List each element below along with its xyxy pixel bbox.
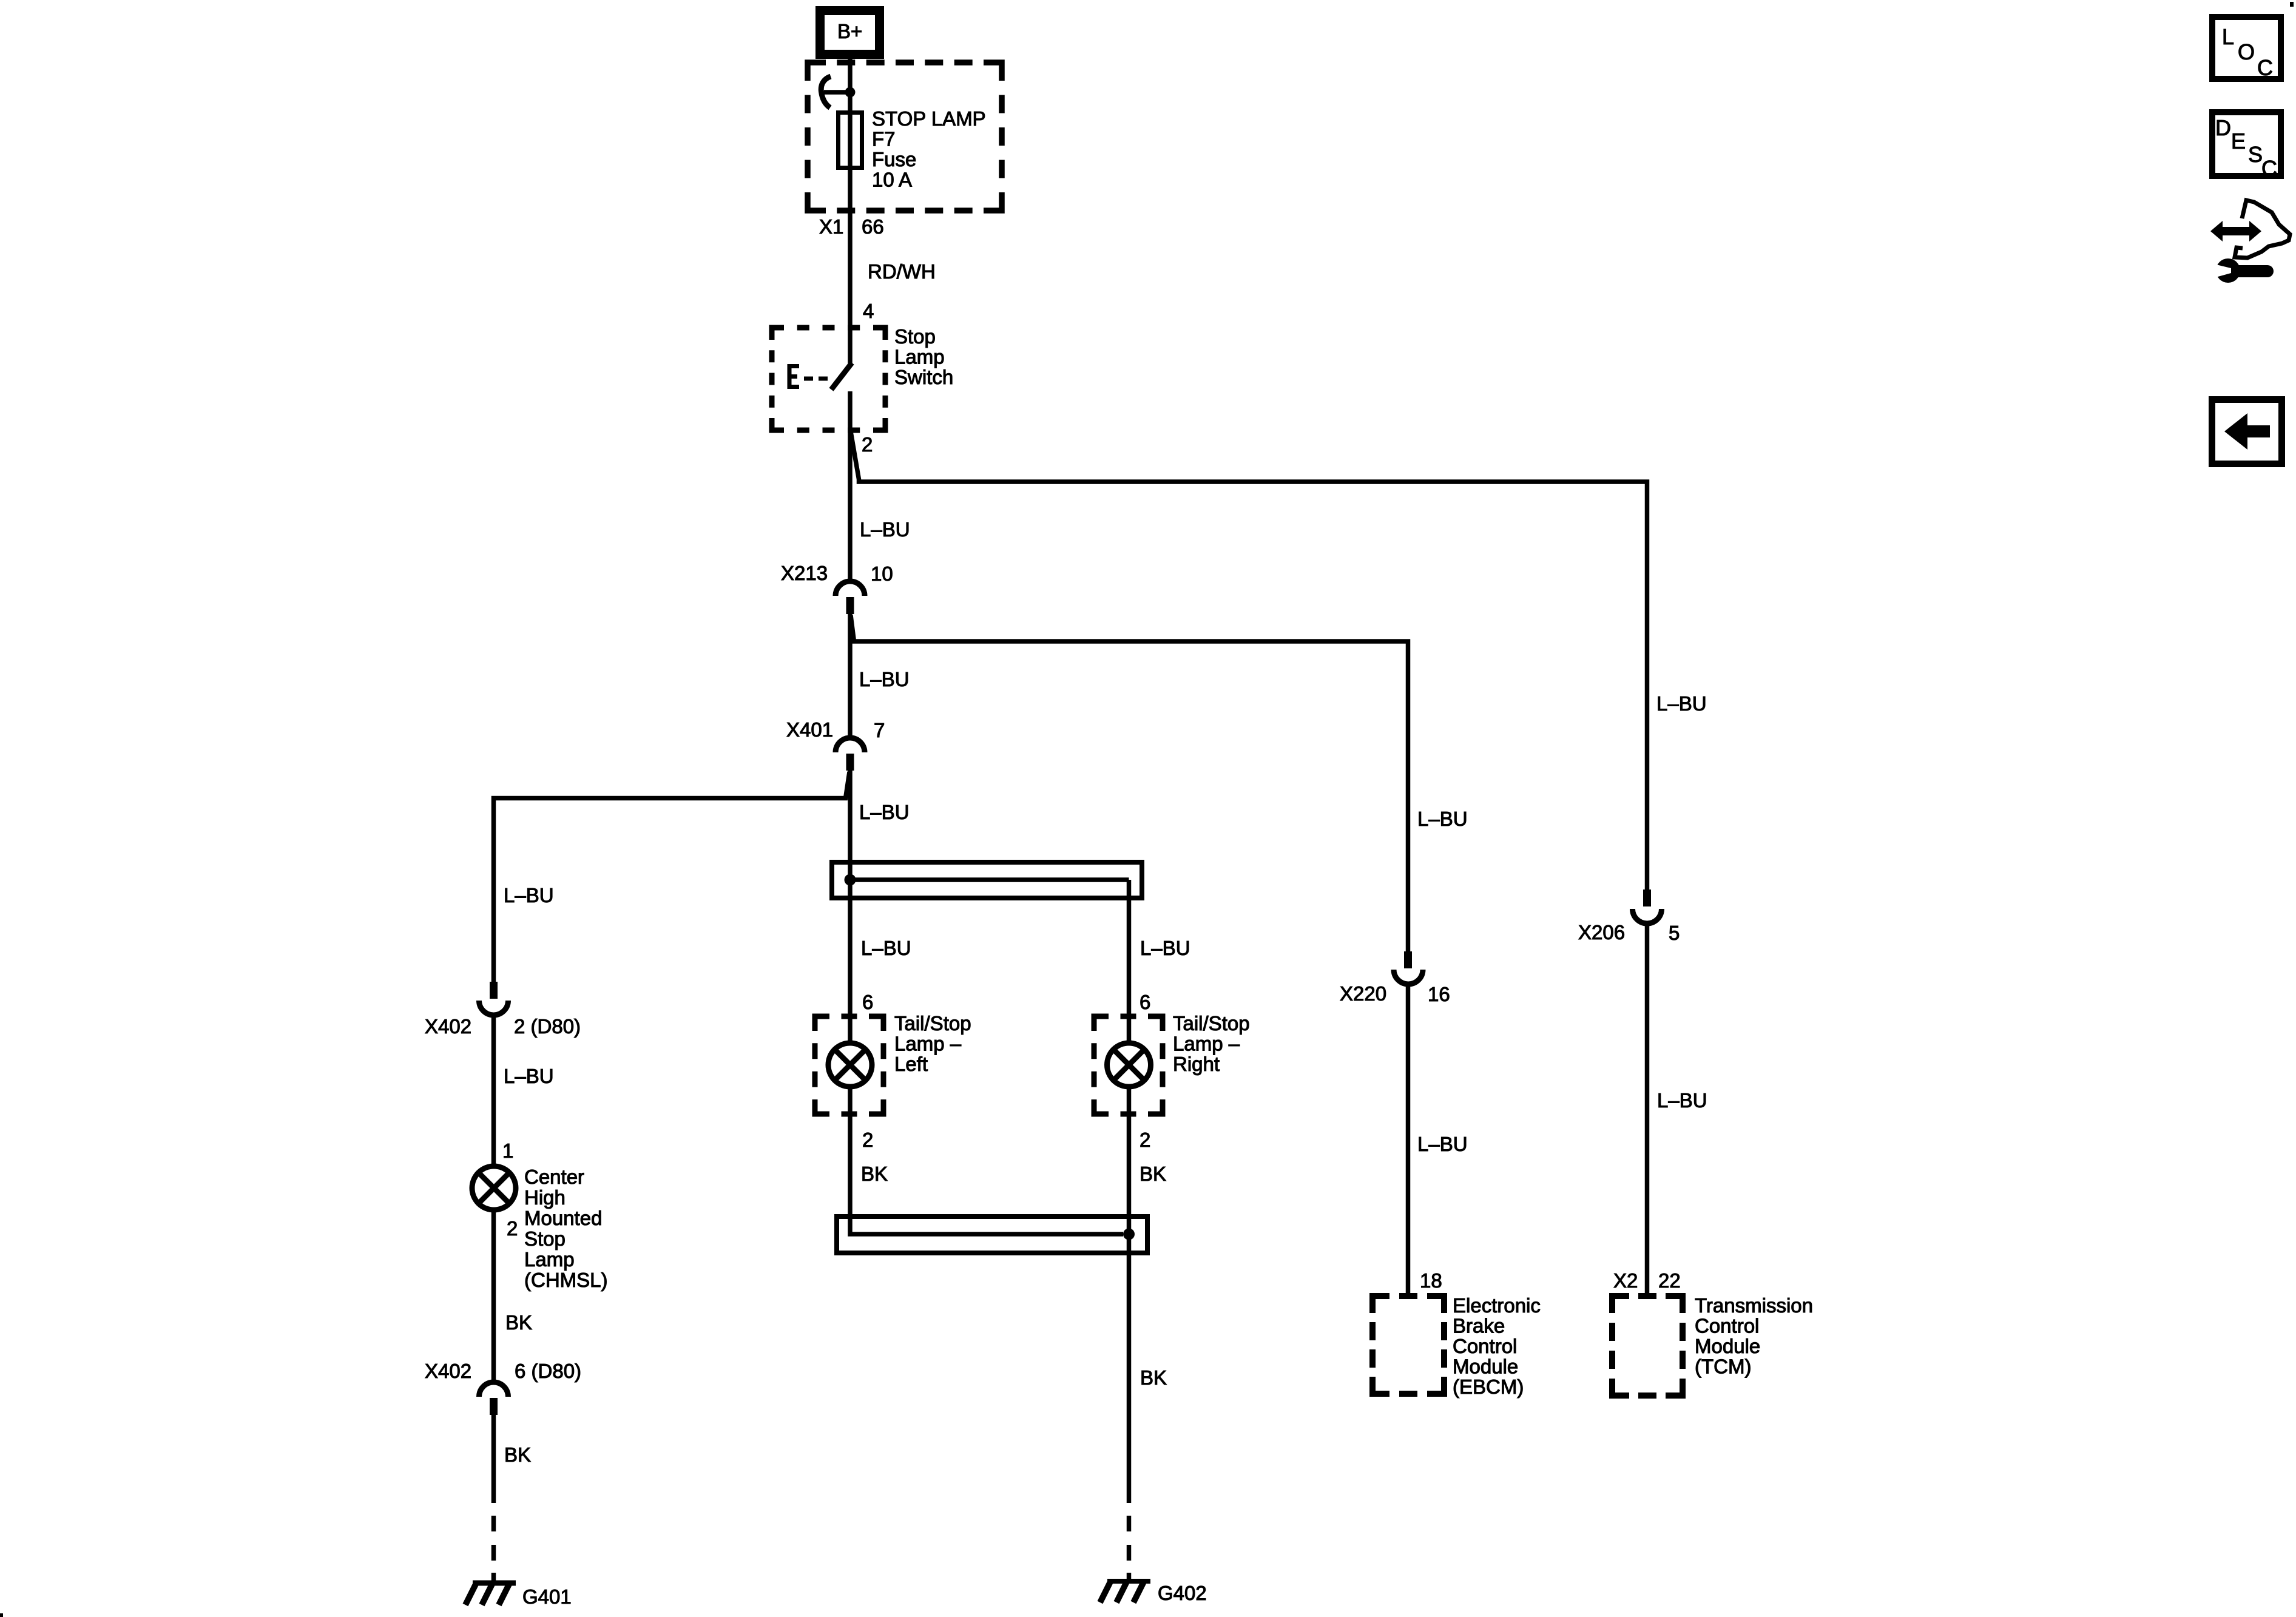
svg-text:Electronic: Electronic (1453, 1294, 1541, 1317)
svg-text:F7: F7 (872, 128, 896, 150)
inline connector X402 pin 6 (D80) (425, 1360, 581, 1415)
svg-text:L–BU: L–BU (861, 937, 911, 959)
svg-text:6: 6 (862, 991, 873, 1013)
svg-text:Mounted: Mounted (524, 1207, 602, 1229)
svg-text:2: 2 (1140, 1129, 1150, 1151)
svg-text:X206: X206 (1578, 921, 1625, 944)
label: STOP LAMP F7 Fuse 10 A (872, 107, 986, 191)
ground G402 (1100, 1581, 1207, 1604)
svg-text:B+: B+ (837, 20, 862, 42)
svg-text:L–BU: L–BU (859, 668, 910, 690)
wire label BK (504, 1443, 531, 1466)
svg-text:Transmission: Transmission (1695, 1294, 1813, 1317)
wire label RD/WH (868, 260, 936, 283)
power feed B+ box (820, 11, 880, 55)
pin 2 label (lamp left) (862, 1129, 873, 1151)
inline connector X402 pin 2 (D80) (425, 982, 581, 1038)
svg-text:C: C (2261, 156, 2277, 181)
wire: X213 to X401 (L-BU) (848, 614, 853, 738)
svg-text:Module: Module (1695, 1335, 1760, 1357)
svg-text:G402: G402 (1158, 1582, 1207, 1604)
svg-text:Lamp –: Lamp – (1173, 1033, 1240, 1055)
svg-text:L–BU: L–BU (1656, 692, 1707, 715)
back arrow icon box (2212, 400, 2282, 464)
tail/stop lamp left bulb (828, 1043, 872, 1087)
wire: X220 to EBCM (L-BU) (1406, 984, 1411, 1298)
svg-text:Lamp –: Lamp – (894, 1033, 962, 1055)
svg-text:5: 5 (1669, 922, 1680, 944)
svg-text:Module: Module (1453, 1355, 1518, 1378)
svg-text:L–BU: L–BU (504, 884, 554, 906)
svg-text:(EBCM): (EBCM) (1453, 1376, 1524, 1398)
inline connector X220 pin 16 (1340, 951, 1450, 1005)
wire label L-BU (859, 668, 910, 690)
svg-text:Control: Control (1695, 1315, 1759, 1337)
wire label L-BU (860, 518, 910, 541)
splice S1 junction dot (845, 874, 856, 886)
svg-text:Stop: Stop (524, 1227, 566, 1250)
svg-text:2 (D80): 2 (D80) (514, 1015, 581, 1038)
svg-text:Brake: Brake (1453, 1315, 1505, 1337)
svg-text:D: D (2215, 115, 2231, 140)
fuse F7 body (839, 113, 862, 168)
page mark bottom left (0, 1613, 3, 1617)
CHMSL bulb (472, 1166, 516, 1210)
splice S2 junction dot (1123, 1229, 1135, 1240)
svg-text:Lamp: Lamp (524, 1248, 575, 1271)
svg-text:STOP LAMP: STOP LAMP (872, 107, 986, 130)
dashed wire to G402 (1127, 1516, 1132, 1580)
svg-text:Stop: Stop (894, 325, 936, 348)
wire: B+ through fuse F7 to stop lamp switch pin 4 (848, 58, 853, 363)
svg-text:2: 2 (862, 433, 873, 456)
svg-text:X2: X2 (1613, 1269, 1638, 1292)
label: Electronic Brake Control Module (EBCM) (1453, 1294, 1541, 1398)
connector repair icon: terminal outline (2235, 200, 2290, 258)
svg-text:Center: Center (524, 1166, 584, 1188)
branch wire to X206 / TCM (851, 431, 1647, 890)
svg-text:Right: Right (1173, 1053, 1220, 1075)
svg-text:BK: BK (1140, 1366, 1167, 1389)
svg-text:BK: BK (505, 1311, 532, 1334)
svg-text:L–BU: L–BU (860, 518, 910, 541)
svg-text:16: 16 (1428, 983, 1450, 1005)
svg-text:High: High (524, 1186, 566, 1209)
svg-text:Fuse: Fuse (872, 148, 916, 170)
svg-text:X220: X220 (1340, 982, 1386, 1005)
splice S1 inner wire (850, 877, 1129, 882)
wire: lamp left to splice S2 (850, 1087, 1123, 1234)
pin 6 label (lamp left) (862, 991, 873, 1013)
svg-text:L–BU: L–BU (1417, 1133, 1468, 1155)
pin 2 label (lamp right) (1140, 1129, 1150, 1151)
svg-text:G401: G401 (522, 1585, 572, 1608)
branch wire to CHMSL (494, 772, 850, 982)
wire: X206 to TCM (L-BU) (1645, 923, 1650, 1298)
inline connector X206 pin 5 (1578, 890, 1680, 944)
svg-text:X401: X401 (786, 718, 833, 741)
svg-text:Control: Control (1453, 1335, 1517, 1357)
svg-text:7: 7 (874, 719, 885, 741)
label: Tail/Stop Lamp - Left (894, 1012, 971, 1075)
svg-text:X1: X1 (819, 215, 843, 238)
wire: switch pin 2 down to X213 (L-BU) (848, 391, 853, 581)
brake pedal actuator symbol E (789, 364, 828, 389)
branch wire to X220 / EBCM (851, 615, 1408, 951)
svg-text:L–BU: L–BU (1657, 1089, 1707, 1112)
svg-text:22: 22 (1658, 1269, 1681, 1292)
wire label L-BU (X220 branch upper) (1417, 808, 1468, 830)
wire: CHMSL to X402-6 (BK) (491, 1210, 496, 1382)
inline connector X401 pin 7 (786, 718, 885, 771)
svg-text:2: 2 (507, 1217, 518, 1240)
label: Center High Mounted Stop Lamp (CHMSL) (524, 1166, 608, 1291)
underhood fuse block dashed box (808, 62, 1002, 211)
connector label X2 pin 22 (1613, 1269, 1681, 1292)
wire label BK (right column) (1140, 1366, 1167, 1389)
fuse block clip (821, 76, 849, 108)
svg-text:66: 66 (862, 215, 884, 238)
svg-text:L–BU: L–BU (859, 801, 910, 823)
svg-text:L–BU: L–BU (1140, 937, 1190, 959)
dashed wire to G401 (491, 1516, 496, 1581)
LOC icon box (2212, 17, 2281, 80)
svg-text:C: C (2257, 55, 2273, 80)
svg-text:BK: BK (861, 1163, 888, 1185)
svg-text:X402: X402 (425, 1360, 471, 1382)
svg-text:S: S (2248, 142, 2263, 167)
page mark top right (2290, 2, 2294, 7)
splice pack S1 bus bar (832, 862, 1142, 898)
svg-text:Switch: Switch (894, 366, 953, 388)
wire label L-BU (X220 branch lower) (1417, 1133, 1468, 1155)
wire label BK (lamp right) (1140, 1163, 1166, 1185)
svg-text:L–BU: L–BU (1417, 808, 1468, 830)
wire: lamp right through splice S2 to G402 (1127, 1087, 1132, 1503)
svg-text:2: 2 (862, 1129, 873, 1151)
ground G401 (465, 1583, 572, 1608)
svg-text:6 (D80): 6 (D80) (515, 1360, 581, 1382)
svg-text:10 A: 10 A (872, 169, 912, 191)
connector repair icon: double arrow (2210, 221, 2261, 241)
svg-text:Tail/Stop: Tail/Stop (1173, 1012, 1250, 1035)
pin 1 label (CHMSL) (502, 1139, 513, 1162)
wire label L-BU (X206 branch lower) (1657, 1089, 1707, 1112)
svg-text:Left: Left (894, 1053, 928, 1075)
label: Stop Lamp Switch (894, 325, 953, 388)
TCM dashed box (1612, 1296, 1683, 1396)
pin 2 label (862, 433, 873, 456)
stop lamp switch blade (831, 363, 852, 390)
wire label BK (lamp left) (861, 1163, 888, 1185)
svg-text:O: O (2238, 39, 2255, 64)
svg-text:1: 1 (502, 1139, 513, 1162)
svg-text:10: 10 (871, 562, 893, 585)
tail/stop lamp right bulb (1107, 1043, 1151, 1087)
EBCM dashed box (1373, 1296, 1444, 1394)
wire label BK (505, 1311, 532, 1334)
svg-text:X213: X213 (781, 562, 828, 584)
svg-text:4: 4 (863, 300, 874, 322)
junction node in fuse block (845, 87, 856, 98)
svg-text:6: 6 (1140, 991, 1150, 1013)
svg-text:E: E (2231, 129, 2246, 154)
svg-text:Lamp: Lamp (894, 346, 945, 368)
svg-text:(CHMSL): (CHMSL) (524, 1269, 608, 1291)
label: Transmission Control Module (TCM) (1695, 1294, 1813, 1378)
connector repair icon: wrench (2213, 258, 2274, 283)
svg-text:L: L (2222, 24, 2234, 49)
wire label L-BU (859, 801, 910, 823)
pin 18 label (1420, 1269, 1442, 1292)
wire label L-BU (lamp left) (861, 937, 911, 959)
label: Tail/Stop Lamp - Right (1173, 1012, 1250, 1075)
wire label L-BU (X206 branch upper) (1656, 692, 1707, 715)
svg-text:(TCM): (TCM) (1695, 1355, 1751, 1378)
tail/stop lamp right dashed box (1094, 1016, 1163, 1114)
pin 2 label (CHMSL) (507, 1217, 518, 1240)
svg-text:BK: BK (504, 1443, 531, 1466)
svg-text:18: 18 (1420, 1269, 1442, 1292)
connector label X1 pin 66 (819, 215, 884, 238)
svg-text:Tail/Stop: Tail/Stop (894, 1012, 971, 1035)
stop lamp switch dashed box (772, 328, 885, 430)
inline connector X213 pin 10 (781, 562, 893, 614)
pin 6 label (lamp right) (1140, 991, 1150, 1013)
svg-text:L–BU: L–BU (504, 1065, 554, 1087)
wire label L-BU (lamp right) (1140, 937, 1190, 959)
svg-text:X402: X402 (425, 1015, 471, 1038)
wire label L-BU (504, 1065, 554, 1087)
pin 4 label (863, 300, 874, 322)
wire label L-BU (CHMSL branch) (504, 884, 554, 906)
splice pack S2 bus bar (837, 1217, 1147, 1253)
wire: X402-2 to CHMSL lamp (491, 1014, 496, 1167)
wire: X402-6 to G401 (BK) (491, 1415, 496, 1503)
wire: splice S1 to tail/stop lamp right (1127, 880, 1132, 1044)
svg-text:RD/WH: RD/WH (868, 260, 936, 283)
tail/stop lamp left dashed box (815, 1016, 883, 1114)
svg-text:BK: BK (1140, 1163, 1166, 1185)
DESC icon box (2212, 112, 2281, 181)
wire: X401 down through splice S1 to tail/stop lamp left (848, 771, 853, 1044)
